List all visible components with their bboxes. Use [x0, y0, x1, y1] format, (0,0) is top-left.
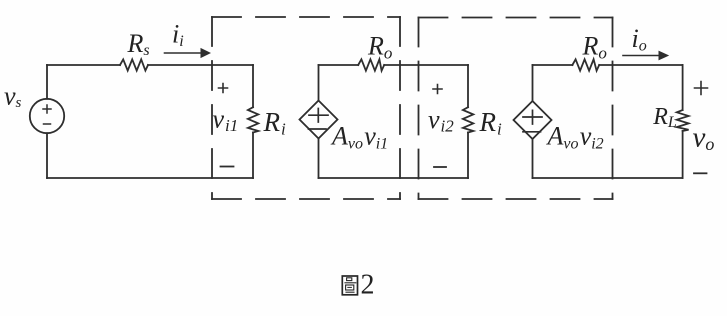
wire: Ro2 to RL top [599, 64, 682, 66]
wire: dep source 2 top to Ro2 [533, 64, 573, 66]
load resistor RL [677, 65, 689, 178]
svg-text:vi2: vi2 [428, 105, 454, 136]
wire: bottom rail output loop [533, 177, 683, 179]
wire: dep source 1 top lead [318, 65, 320, 101]
polarity + for vo [695, 82, 708, 95]
amplifier stage 1 dashed box [212, 17, 400, 199]
current arrow io [623, 51, 669, 61]
wire: dep source 2 bottom lead [532, 139, 534, 178]
wire: dep source 1 bottom lead [318, 139, 320, 179]
svg-text:Ro: Ro [367, 32, 392, 63]
svg-text:vs: vs [4, 82, 22, 112]
svg-text:Ri: Ri [263, 107, 287, 139]
resistor Rs [120, 59, 148, 70]
wire: bottom rail of input loop [47, 177, 253, 179]
svg-text:Ro: Ro [582, 32, 607, 63]
wire: dep source 2 top lead [532, 65, 534, 101]
wire: top rail from vs corner to Rs [47, 64, 120, 66]
dependent source Avo vi1 [300, 101, 338, 139]
wire: vs top lead [46, 65, 48, 99]
resistor Ri stage 2 [463, 65, 473, 178]
svg-text:Avovi1: Avovi1 [330, 122, 388, 153]
wire: bottom rail stage1 output loop [319, 177, 469, 179]
svg-text:ii: ii [172, 20, 184, 51]
wire: dep source 1 top to Ro1 [319, 64, 359, 66]
svg-text:Avovi2: Avovi2 [546, 122, 604, 153]
resistor Ro stage 2 [572, 59, 599, 70]
svg-text:Ri: Ri [479, 107, 503, 139]
svg-text:2: 2 [361, 270, 375, 301]
polarity + for vi1 [219, 84, 228, 93]
wire: Rs to Ri1 top [148, 64, 253, 66]
current arrow ii [165, 48, 212, 58]
svg-text:io: io [632, 24, 647, 55]
resistor Ro stage 1 [358, 59, 384, 70]
svg-text:Rs: Rs [127, 29, 150, 59]
resistor Ri stage 1 [248, 65, 258, 178]
svg-text:vi1: vi1 [213, 105, 239, 136]
svg-text:vo: vo [693, 122, 715, 155]
polarity - for vo [694, 172, 707, 174]
polarity - for vi1 [221, 166, 234, 168]
svg-text:RL: RL [652, 104, 677, 131]
dependent source Avo vi2 [514, 101, 552, 139]
wire: Ro1 to Ri2 top [384, 64, 468, 66]
voltage source vs [30, 99, 64, 133]
caption figure glyph (圖) [342, 276, 357, 295]
polarity + for vi2 [433, 85, 442, 94]
amplifier stage 2 dashed box [419, 18, 613, 200]
polarity - for vi2 [434, 166, 446, 168]
wire: vs bottom lead [46, 133, 48, 178]
